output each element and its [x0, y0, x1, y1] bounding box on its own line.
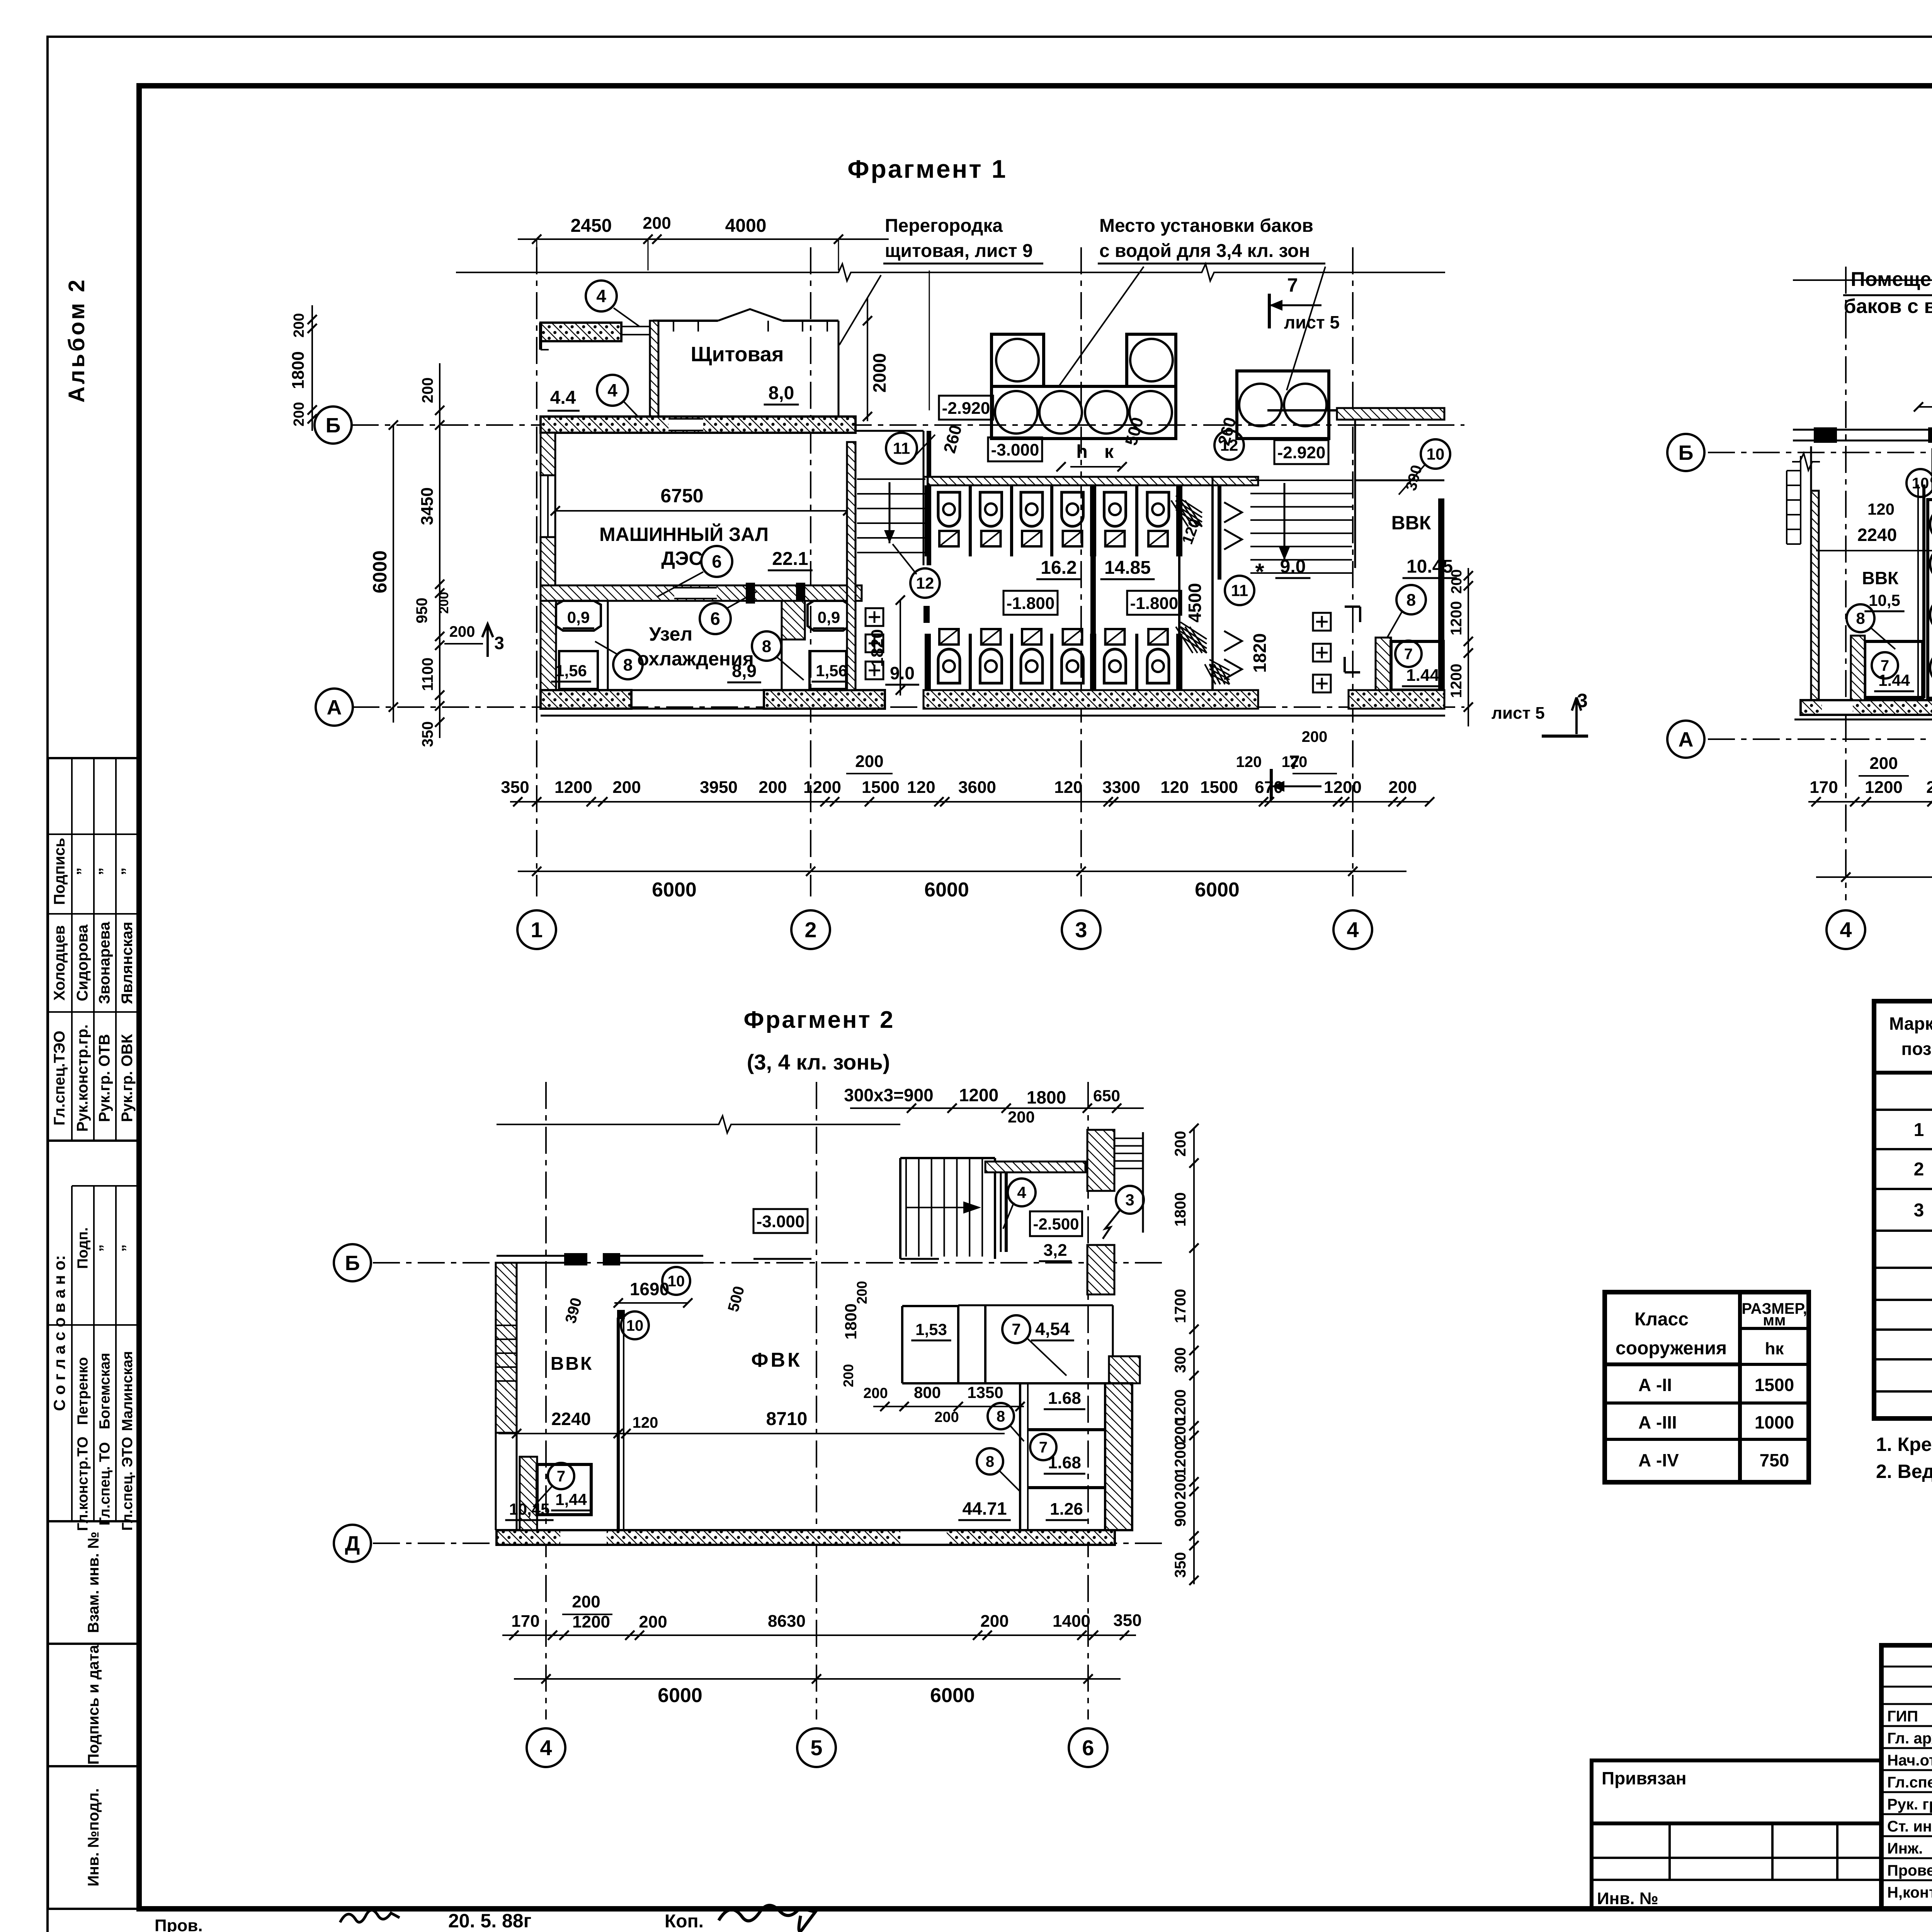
svg-text:Гл.спец.: Гл.спец. [1887, 1774, 1932, 1791]
svg-text:Инж.: Инж. [1887, 1840, 1923, 1857]
bottom dims frag2 [1808, 801, 1932, 803]
svg-text:4: 4 [607, 380, 617, 400]
svg-text:С о г л а с о в а н о:: С о г л а с о в а н о: [50, 1255, 68, 1411]
VVK room frag1 [1355, 480, 1444, 481]
bottom band right frag1 [1349, 690, 1444, 709]
svg-text:1: 1 [1914, 1120, 1924, 1140]
svg-text:Коп.: Коп. [665, 1911, 704, 1932]
dim 6000 frag2 [1816, 876, 1932, 878]
partition VVK frag2 [1922, 485, 1925, 698]
svg-text:8: 8 [997, 1408, 1005, 1425]
dim 6000 frag3 [514, 1678, 1121, 1680]
cut line top frag1 [456, 272, 831, 273]
svg-text:Сидорова: Сидорова [74, 924, 91, 1001]
svg-text:1: 1 [531, 918, 543, 942]
svg-text:1200: 1200 [554, 778, 592, 797]
svg-text:Класс: Класс [1634, 1309, 1689, 1330]
svg-text:44.71: 44.71 [962, 1498, 1007, 1519]
bottom wall band left block [541, 690, 631, 709]
svg-text:*: * [1255, 559, 1264, 585]
svg-text:800: 800 [914, 1383, 941, 1401]
svg-text:2: 2 [1914, 1159, 1924, 1180]
svg-text:1500: 1500 [1200, 778, 1238, 797]
svg-text:950: 950 [413, 598, 430, 624]
svg-text:А -II: А -II [1638, 1375, 1672, 1395]
svg-text:h: h [1076, 442, 1087, 462]
svg-text:10: 10 [626, 1317, 644, 1334]
lower right rooms frag3 [1019, 1383, 1021, 1530]
cooling unit block walls [541, 585, 862, 601]
svg-text:1.44: 1.44 [1406, 666, 1439, 685]
svg-text:1,44: 1,44 [555, 1490, 587, 1509]
svg-text:200: 200 [1388, 778, 1417, 797]
svg-text:1200: 1200 [1448, 601, 1465, 636]
plus boxes [866, 608, 883, 626]
svg-text:6000: 6000 [369, 550, 391, 593]
svg-text:350: 350 [1113, 1611, 1141, 1630]
svg-text:200: 200 [759, 778, 787, 797]
svg-text:4: 4 [1347, 918, 1359, 942]
cooling unit room [607, 601, 609, 690]
upper right rooms frag3 [985, 1162, 1085, 1172]
svg-text:(3, 4 кл. зонь): (3, 4 кл. зонь) [747, 1050, 890, 1074]
svg-text:670: 670 [1255, 778, 1283, 797]
svg-text:120: 120 [1236, 753, 1262, 770]
svg-text:2: 2 [804, 918, 816, 942]
svg-text:Инв. №: Инв. № [1597, 1889, 1658, 1908]
svg-text:1.44: 1.44 [1878, 671, 1910, 689]
svg-text:1000: 1000 [1755, 1412, 1794, 1432]
svg-text:16.2: 16.2 [1041, 558, 1077, 578]
svg-text:ГИП: ГИП [1887, 1708, 1918, 1725]
svg-text:Рук.гр. ОВК: Рук.гр. ОВК [119, 1034, 136, 1122]
svg-text:ФВК: ФВК [751, 1349, 802, 1371]
dim chain 6000 frag1 [518, 871, 1406, 872]
svg-text:к: к [1104, 442, 1114, 462]
outer wall top-left frag1 [541, 323, 621, 341]
svg-text:3300: 3300 [1102, 778, 1140, 797]
svg-text:8,0: 8,0 [769, 383, 794, 403]
svg-text:1200: 1200 [1448, 664, 1465, 698]
small chamber frag3 [520, 1457, 537, 1530]
svg-text:7: 7 [1287, 274, 1298, 296]
svg-text:120: 120 [1282, 753, 1308, 770]
svg-text:А: А [327, 696, 342, 719]
axis B frag1 [352, 424, 1464, 426]
svg-text:200: 200 [840, 1364, 856, 1387]
svg-text:Звонарева: Звонарева [96, 922, 113, 1004]
svg-text:поз.: поз. [1901, 1039, 1932, 1059]
walls frag2 top [1793, 429, 1932, 431]
svg-text:6: 6 [1082, 1736, 1094, 1760]
small cells 0.9 / 1.56 right [782, 601, 805, 639]
svg-text:8,9: 8,9 [732, 661, 757, 681]
svg-text:11: 11 [893, 439, 910, 457]
svg-text:1400: 1400 [1053, 1612, 1090, 1631]
svg-text:200: 200 [291, 313, 307, 337]
svg-text:Фрагмент 2: Фрагмент 2 [744, 1007, 895, 1033]
svg-text:200: 200 [1172, 1131, 1189, 1157]
svg-text:Гл.констр.ТО: Гл.констр.ТО [75, 1437, 91, 1531]
svg-text:А -III: А -III [1638, 1412, 1677, 1432]
walls frag3 [497, 1255, 587, 1257]
svg-text:3600: 3600 [958, 778, 996, 797]
middle rooms frag3 [901, 1306, 903, 1383]
toilet west wall [923, 431, 925, 565]
privyazan box [1592, 1760, 1881, 1823]
svg-text:200: 200 [291, 402, 307, 426]
svg-text:1200: 1200 [572, 1612, 610, 1631]
svg-text:лист 5: лист 5 [1492, 704, 1545, 723]
svg-text:3950: 3950 [700, 778, 738, 797]
svg-text:ВВК: ВВК [551, 1354, 594, 1374]
svg-text:сооружения: сооружения [1616, 1338, 1727, 1359]
svg-text:Нач.отд: Нач.отд [1887, 1752, 1932, 1769]
svg-text:7: 7 [557, 1468, 565, 1485]
svg-text:350: 350 [419, 721, 436, 747]
svg-text:баков с водой: баков с водой [1844, 295, 1932, 318]
svg-text:200: 200 [934, 1409, 959, 1425]
tanks frag2 [1928, 500, 1932, 698]
svg-text:Б: Б [326, 414, 341, 437]
svg-text:Перегородка: Перегородка [885, 216, 1003, 236]
axes 1-4 frag1 [536, 247, 537, 896]
svg-text:4: 4 [1840, 918, 1852, 942]
toilet block [923, 476, 1219, 478]
svg-text:200: 200 [419, 378, 436, 403]
svg-text:”: ” [74, 867, 91, 875]
tanks group frag1 [992, 334, 1044, 386]
svg-text:1800: 1800 [1172, 1192, 1189, 1227]
svg-text:4500: 4500 [1185, 583, 1205, 622]
svg-text:200: 200 [1008, 1108, 1035, 1126]
svg-text:Рук. гр.: Рук. гр. [1887, 1796, 1932, 1813]
svg-text:-2.920: -2.920 [942, 399, 990, 418]
svg-text:”: ” [96, 867, 113, 875]
svg-text:Рук.гр. ОТВ: Рук.гр. ОТВ [96, 1034, 113, 1122]
svg-text:300х3=900: 300х3=900 [844, 1085, 934, 1105]
cut line frag3 [497, 1124, 711, 1125]
machine hall [554, 433, 556, 585]
svg-text:ВВК: ВВК [1391, 512, 1431, 534]
svg-text:Подпись: Подпись [51, 838, 68, 905]
svg-text:1,53: 1,53 [915, 1320, 947, 1338]
svg-text:щитовая, лист 9: щитовая, лист 9 [885, 241, 1033, 261]
svg-text:”: ” [119, 867, 136, 875]
svg-text:-1.800: -1.800 [1007, 594, 1055, 613]
svg-text:7: 7 [1012, 1320, 1020, 1338]
level boxes mid frag1 [988, 437, 1042, 461]
svg-text:1800: 1800 [1027, 1087, 1066, 1107]
svg-text:1800: 1800 [289, 351, 308, 389]
svg-text:200: 200 [612, 778, 641, 797]
left wall frag2 [1810, 446, 1812, 700]
svg-text:1800: 1800 [842, 1303, 860, 1339]
svg-text:10: 10 [668, 1273, 685, 1290]
bottom dims frag3 [502, 1634, 1136, 1636]
svg-text:Гл.спец.ТЭО: Гл.спец.ТЭО [51, 1031, 68, 1126]
svg-text:8: 8 [1406, 590, 1416, 609]
svg-text:10: 10 [1912, 475, 1929, 492]
svg-text:А -IV: А -IV [1638, 1450, 1679, 1470]
sidebar inventory boxes [48, 1521, 139, 1644]
svg-text:200: 200 [1869, 754, 1898, 773]
stairs frag3 [905, 1158, 907, 1257]
svg-text:-3.000: -3.000 [991, 440, 1039, 459]
class table [1605, 1292, 1809, 1482]
svg-text:200: 200 [854, 1281, 870, 1304]
svg-text:120: 120 [1867, 500, 1895, 518]
svg-text:6750: 6750 [660, 485, 703, 507]
svg-text:12: 12 [916, 574, 934, 592]
svg-text:4,54: 4,54 [1035, 1319, 1070, 1339]
axes 4-6 frag3 [545, 1082, 547, 1719]
svg-text:1200: 1200 [1865, 778, 1903, 797]
svg-text:Б: Б [345, 1252, 360, 1275]
svg-text:200: 200 [1172, 1418, 1189, 1444]
shchitovaya room [653, 320, 718, 322]
svg-text:120: 120 [633, 1414, 658, 1431]
svg-text:350: 350 [1172, 1552, 1189, 1578]
svg-text:Подпись и дата: Подпись и дата [85, 1645, 102, 1765]
svg-text:1. Крепление теплоизоляции анк: 1. Крепление теплоизоляции анкерами см. … [1876, 1434, 1932, 1455]
svg-text:лист 5: лист 5 [1284, 312, 1340, 332]
svg-text:8630: 8630 [768, 1612, 806, 1631]
svg-text:7: 7 [1039, 1439, 1048, 1456]
svg-text:Узел: Узел [649, 623, 692, 645]
svg-text:с водой для 3,4 кл. зон: с водой для 3,4 кл. зон [1099, 241, 1310, 261]
svg-text:1350: 1350 [967, 1383, 1003, 1401]
svg-text:hк: hк [1765, 1339, 1784, 1358]
svg-text:6000: 6000 [652, 879, 697, 901]
top wall right portion frag1 [1267, 409, 1337, 412]
svg-text:3: 3 [1075, 918, 1087, 942]
svg-text:2240: 2240 [551, 1409, 591, 1429]
axis A frag2 [1708, 738, 1932, 740]
svg-text:-2.500: -2.500 [1033, 1215, 1079, 1233]
svg-text:Взам. инв. №: Взам. инв. № [85, 1532, 102, 1633]
svg-text:11: 11 [1231, 582, 1248, 600]
svg-text:20. 5. 88г: 20. 5. 88г [448, 1910, 531, 1932]
svg-text:8710: 8710 [766, 1409, 808, 1429]
svg-text:Место установки баков: Место установки баков [1099, 216, 1313, 236]
svg-text:200: 200 [643, 214, 671, 233]
svg-text:Ст. инж.: Ст. инж. [1887, 1818, 1932, 1835]
svg-text:10,45: 10,45 [509, 1500, 549, 1518]
svg-text:Гл.спец. ТО: Гл.спец. ТО [97, 1442, 113, 1526]
svg-text:1700: 1700 [1172, 1289, 1189, 1323]
svg-text:2450: 2450 [571, 216, 612, 236]
svg-text:9.0: 9.0 [890, 663, 915, 683]
svg-text:6: 6 [712, 551, 722, 571]
ventilation channel [1178, 485, 1180, 690]
sidebar signature table [48, 758, 139, 1141]
svg-text:10.45: 10.45 [1406, 556, 1453, 577]
axes 4-6 frag2 [1845, 267, 1847, 900]
svg-text:Рук.констр.гр.: Рук.констр.гр. [74, 1024, 91, 1132]
svg-text:200: 200 [1926, 778, 1932, 797]
cut line top frag2 [1793, 279, 1932, 281]
svg-text:3450: 3450 [418, 487, 437, 525]
svg-text:Альбом 2: Альбом 2 [64, 277, 89, 403]
svg-text:Провер.: Провер. [1887, 1862, 1932, 1879]
svg-text:”: ” [119, 1245, 136, 1252]
title block main frame [1881, 1645, 1932, 1909]
right dim chain frag3 [1193, 1128, 1195, 1584]
svg-text:170: 170 [1810, 778, 1838, 797]
svg-text:200: 200 [1172, 1474, 1189, 1500]
svg-text:1.68: 1.68 [1048, 1389, 1081, 1408]
svg-text:Помещение: Помещение [1851, 268, 1932, 291]
svg-text:5: 5 [810, 1736, 822, 1760]
svg-text:10: 10 [1427, 445, 1445, 463]
axis B frag2 [1708, 452, 1932, 453]
svg-text:ВВК: ВВК [1862, 568, 1899, 588]
svg-text:6000: 6000 [930, 1684, 975, 1707]
svg-text:Щитовая: Щитовая [691, 343, 784, 366]
svg-text:200: 200 [980, 1612, 1009, 1631]
svg-text:4: 4 [1017, 1184, 1026, 1202]
svg-text:Гл. арх: Гл. арх [1887, 1730, 1932, 1747]
svg-text:Подп.: Подп. [75, 1227, 91, 1269]
svg-text:Привязан: Привязан [1602, 1768, 1687, 1788]
svg-text:Инв. №подл.: Инв. №подл. [85, 1788, 102, 1886]
svg-text:22.1: 22.1 [772, 549, 808, 569]
svg-text:1200: 1200 [1324, 778, 1362, 797]
svg-text:7: 7 [1404, 646, 1413, 663]
svg-text:Являнская: Являнская [119, 922, 136, 1004]
svg-text:1500: 1500 [862, 778, 900, 797]
svg-text:6000: 6000 [1195, 879, 1240, 901]
svg-text:4.4: 4.4 [550, 388, 576, 408]
dim chain top frag1 [518, 238, 889, 240]
svg-text:МАШИННЫЙ ЗАЛ: МАШИННЫЙ ЗАЛ [599, 523, 769, 545]
svg-text:1100: 1100 [419, 658, 436, 691]
axis D frag3 [373, 1543, 1163, 1544]
corridor and left stair [847, 442, 855, 690]
svg-text:1,56: 1,56 [555, 662, 587, 680]
svg-text:8: 8 [1856, 609, 1865, 628]
svg-text:200: 200 [437, 592, 451, 614]
svg-text:0,9: 0,9 [818, 608, 840, 626]
svg-text:Д: Д [345, 1532, 360, 1555]
svg-text:1,56: 1,56 [816, 662, 847, 680]
svg-text:мм: мм [1763, 1312, 1786, 1329]
svg-text:1200: 1200 [959, 1085, 998, 1105]
svg-text:ДЭС: ДЭС [661, 548, 702, 569]
right dim chain frag1 [1468, 568, 1469, 726]
svg-text:9.0: 9.0 [1280, 556, 1306, 577]
bottom wall frag2 [1801, 700, 1932, 715]
left small table [1592, 1823, 1881, 1909]
svg-text:6: 6 [710, 609, 720, 629]
svg-text:200: 200 [639, 1612, 667, 1631]
mark 4 circles [586, 281, 617, 311]
svg-text:Богемская: Богемская [97, 1353, 113, 1429]
svg-text:300: 300 [1172, 1347, 1189, 1373]
svg-text:-2.920: -2.920 [1277, 443, 1326, 462]
svg-text:6000: 6000 [658, 1684, 702, 1707]
sidebar approval table [48, 1141, 139, 1521]
dim chain left frag1 [393, 425, 394, 723]
small cells 0.9 / 1.56 left [541, 601, 556, 690]
svg-text:8: 8 [623, 655, 633, 674]
svg-text:3: 3 [1914, 1200, 1924, 1221]
svg-text:2000: 2000 [869, 353, 889, 393]
svg-text:0,9: 0,9 [567, 608, 590, 626]
svg-text:12: 12 [1220, 436, 1238, 454]
svg-text:1500: 1500 [1755, 1375, 1794, 1395]
svg-text:750: 750 [1760, 1450, 1789, 1470]
svg-text:10,5: 10,5 [1869, 591, 1900, 609]
svg-text:А: А [1679, 728, 1694, 751]
svg-text:2240: 2240 [1857, 525, 1897, 545]
svg-text:-3.000: -3.000 [757, 1212, 805, 1231]
svg-text:8: 8 [762, 637, 771, 656]
svg-text:200: 200 [855, 752, 883, 771]
svg-text:”: ” [97, 1245, 113, 1252]
svg-text:1820: 1820 [1250, 633, 1270, 673]
svg-text:4000: 4000 [725, 216, 767, 236]
svg-text:Петренко: Петренко [75, 1357, 91, 1425]
svg-text:Марка,: Марка, [1889, 1014, 1932, 1034]
svg-text:Малинская: Малинская [119, 1351, 136, 1431]
dim 1820 corridor [900, 600, 901, 696]
svg-text:650: 650 [1093, 1087, 1120, 1105]
svg-text:Пров.: Пров. [155, 1916, 203, 1932]
svg-text:Н,контр.: Н,контр. [1887, 1884, 1932, 1901]
svg-text:-1.800: -1.800 [1130, 594, 1179, 613]
svg-text:14.85: 14.85 [1104, 558, 1151, 578]
svg-text:6000: 6000 [924, 879, 969, 901]
partition VVK FVK frag3 [617, 1318, 620, 1530]
svg-text:Фрагмент 1: Фрагмент 1 [847, 155, 1007, 183]
left wall frag3 [496, 1263, 517, 1433]
svg-text:3,2: 3,2 [1043, 1241, 1067, 1260]
svg-text:4: 4 [540, 1736, 552, 1760]
svg-text:120: 120 [1054, 778, 1082, 797]
top dim chain frag3 [850, 1107, 1144, 1109]
svg-text:170: 170 [511, 1612, 539, 1631]
bottom wall frag3 [497, 1530, 1115, 1545]
bottom band toilet block [923, 690, 1258, 709]
svg-text:3: 3 [494, 633, 504, 653]
svg-text:3: 3 [1125, 1191, 1134, 1209]
axis B frag3 [373, 1262, 1163, 1264]
svg-text:4: 4 [596, 286, 606, 306]
svg-text:2. Ведомость проемов дверей на: 2. Ведомость проемов дверей на листе 2. [1876, 1461, 1932, 1482]
svg-text:200: 200 [863, 1385, 888, 1401]
small chamber VVK [1376, 638, 1391, 690]
svg-text:900: 900 [1172, 1501, 1189, 1527]
svg-text:Гл.спец. ЭТО: Гл.спец. ЭТО [119, 1437, 136, 1531]
svg-text:1200: 1200 [1172, 1442, 1189, 1476]
svg-text:350: 350 [501, 778, 529, 797]
svg-text:200: 200 [1302, 728, 1328, 745]
specification table grid [1874, 1001, 1932, 1418]
svg-text:200: 200 [572, 1592, 600, 1611]
svg-text:1200: 1200 [803, 778, 841, 797]
right stair frag1 [1213, 477, 1258, 485]
svg-text:120: 120 [907, 778, 935, 797]
dim chain bottom frag1 [510, 801, 1430, 803]
svg-text:Б: Б [1679, 441, 1694, 464]
svg-text:1.26: 1.26 [1050, 1500, 1083, 1519]
svg-text:8: 8 [986, 1453, 994, 1470]
svg-text:200: 200 [449, 623, 475, 640]
svg-text:Холодцев: Холодцев [51, 925, 68, 1000]
wall band below shchitovaya [541, 417, 855, 433]
